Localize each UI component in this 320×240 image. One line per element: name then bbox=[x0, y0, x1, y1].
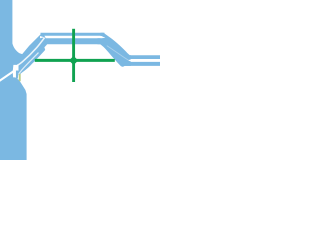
faint white stripe on right band bbox=[107, 46, 132, 61]
canal A right horizontal bbox=[128, 55, 161, 59]
left water: strip + chevron + diagonal canal band (A diag + B diag + C spur merged) bbox=[0, 0, 47, 87]
green diamond node bbox=[69, 56, 78, 65]
green road vertical bbox=[72, 29, 75, 82]
right diagonal canal band bbox=[98, 33, 132, 67]
white stripe P (gap between canal A and canal B on left diagonal) bbox=[17, 38, 44, 66]
bottom water body bbox=[0, 73, 27, 160]
olive path tick bbox=[19, 74, 21, 81]
green road horizontal bbox=[35, 59, 115, 62]
narrow channel under bridge bbox=[15, 71, 17, 80]
white bridge road W1 across lower water bbox=[0, 71, 14, 81]
canal B left horizontal (wide waterway) bbox=[45, 38, 100, 44]
canal B right horizontal bbox=[124, 62, 161, 66]
white lock/bridge rectangle bbox=[13, 65, 19, 78]
white pinch wedge between A and B horizontals bbox=[40, 36, 44, 38]
white wedge opening of right horizontal gap bbox=[128, 59, 131, 62]
canal A left horizontal bbox=[41, 33, 105, 36]
background land bbox=[0, 0, 160, 160]
white stripe S (gap between canal B and spur C) bbox=[18, 53, 38, 75]
